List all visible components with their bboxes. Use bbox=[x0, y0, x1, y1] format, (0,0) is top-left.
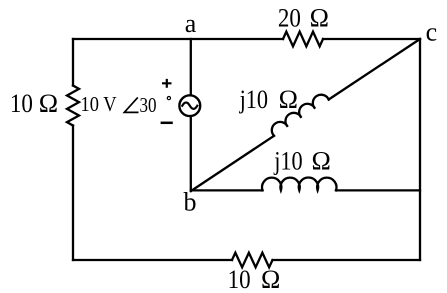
svg-text:a: a bbox=[185, 9, 197, 38]
node label b bbox=[184, 188, 197, 217]
label 20 ohm (top resistor) bbox=[278, 3, 329, 32]
svg-text:j10: j10 bbox=[239, 85, 268, 114]
source minus terminal bbox=[161, 122, 173, 125]
degree symbol bbox=[167, 97, 170, 100]
wire diagonal inductor to node c bbox=[329, 39, 420, 100]
svg-text:c: c bbox=[426, 17, 438, 46]
svg-text:10 V: 10 V bbox=[81, 92, 117, 116]
svg-text:b: b bbox=[184, 188, 197, 217]
wire horizontal inductor to right side bbox=[336, 189, 420, 191]
node label c bbox=[426, 17, 438, 46]
resistor 20 ohm (top) bbox=[283, 32, 323, 47]
svg-text:Ω: Ω bbox=[310, 3, 329, 32]
svg-text:Ω: Ω bbox=[312, 146, 331, 175]
svg-text:Ω: Ω bbox=[39, 89, 58, 118]
resistor 10 ohm (bottom) bbox=[232, 253, 273, 268]
svg-text:Ω: Ω bbox=[261, 265, 280, 293]
wire 20ohm resistor to node c bbox=[323, 38, 420, 40]
svg-text:10: 10 bbox=[10, 89, 33, 118]
ac source sine symbol bbox=[182, 103, 197, 109]
source plus terminal bbox=[162, 79, 172, 88]
wire node b to horizontal inductor bbox=[191, 189, 263, 191]
source label 30 degrees bbox=[140, 93, 157, 117]
node label a bbox=[185, 9, 197, 38]
svg-text:10: 10 bbox=[228, 265, 251, 293]
label 10 ohm (left resistor) bbox=[10, 89, 58, 118]
svg-text:30: 30 bbox=[140, 93, 157, 117]
wire top-left to 20ohm resistor bbox=[73, 38, 283, 40]
svg-text:Ω: Ω bbox=[279, 85, 298, 114]
wire source down to node b bbox=[190, 117, 192, 191]
wire right side c down bbox=[419, 39, 421, 260]
inductor j10 ohm (horizontal) bbox=[262, 177, 337, 190]
wire bottom left to 10ohm resistor bbox=[73, 259, 232, 261]
label 10 ohm (bottom resistor) bbox=[228, 265, 281, 293]
ac source U1 circle bbox=[179, 95, 200, 116]
source value label 10 V bbox=[81, 92, 117, 116]
svg-text:j10: j10 bbox=[273, 146, 302, 175]
angle symbol of source phasor bbox=[124, 97, 138, 112]
svg-text:20: 20 bbox=[278, 3, 301, 32]
wire left top segment bbox=[72, 39, 74, 86]
wire node a down to source bbox=[190, 39, 192, 94]
resistor R 10 ohm (left) bbox=[67, 86, 79, 126]
label j10 ohm (horizontal inductor) bbox=[273, 146, 330, 175]
wire 10ohm resistor to bottom-right corner bbox=[273, 259, 421, 261]
label j10 ohm (diagonal inductor) bbox=[239, 85, 298, 114]
wire left bottom segment bbox=[72, 126, 74, 261]
inductor j10 ohm (diagonal) bbox=[269, 92, 329, 136]
wire node b to diagonal inductor bbox=[191, 136, 274, 191]
